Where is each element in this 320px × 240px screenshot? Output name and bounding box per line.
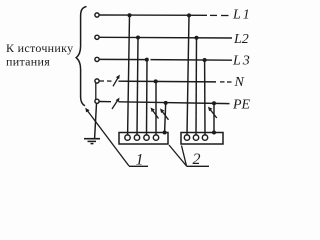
svg-text:L1: L1	[232, 8, 252, 23]
panel 2 box	[181, 133, 223, 145]
terminal circle L3	[95, 57, 99, 61]
terminal circle N	[95, 79, 99, 83]
junction dot feeder2 PE at panel 2	[212, 131, 216, 135]
svg-text:К источнику: К источнику	[6, 41, 73, 55]
panel 1 terminal L2	[134, 135, 139, 140]
feeder 2 wire from L2	[195, 38, 198, 135]
svg-text:1: 1	[136, 152, 144, 169]
junction dot feeder1 PE at panel 1	[163, 131, 167, 135]
bus L2 wire	[99, 36, 232, 39]
panel 2 terminal L1	[184, 135, 189, 140]
bus L1 wire	[99, 14, 207, 16]
junction dot L3/feeder2	[203, 58, 207, 62]
bus L1 dashed end	[210, 14, 217, 16]
svg-text:2: 2	[193, 151, 201, 168]
junction dot PE/feeder2	[212, 101, 216, 105]
junction dot N/feeder1	[154, 79, 158, 83]
feeder 2 wire from L3	[204, 60, 206, 135]
terminal circle L1	[95, 13, 99, 17]
bus L3 wire right part	[151, 59, 233, 62]
ground symbol	[84, 139, 100, 144]
disconnect arrow on feeder 2 PE drop	[208, 107, 217, 118]
junction dot L3/feeder1	[145, 58, 149, 62]
disconnect arrow on feeder 1 PE drop	[160, 108, 169, 119]
junction dot L2/feeder2	[195, 36, 199, 40]
disconnect arrow on bus PE	[112, 98, 120, 110]
feeder 1 wire from L3	[146, 60, 149, 135]
svg-text:L2: L2	[233, 32, 249, 47]
feeder 2 wire from L1	[187, 15, 189, 134]
junction dot L1/feeder1	[128, 13, 132, 17]
feeder 2 wire from PE	[213, 103, 215, 132]
brace (source group)	[76, 7, 86, 106]
leader line for label 1 (points to grounding conductor)	[85, 108, 148, 167]
panel 2 terminal L2	[193, 135, 198, 140]
terminal circle PE	[95, 99, 99, 103]
svg-text:L3: L3	[232, 54, 252, 69]
bus L3 wire	[99, 58, 146, 60]
junction dot PE/feeder1	[164, 101, 168, 105]
junction dot L2/feeder1	[136, 36, 140, 40]
leader line for label 2 from panel 2	[182, 146, 187, 167]
grounding conductor wire	[95, 103, 97, 138]
wire: N-PE link	[95, 83, 97, 99]
bus N dashed end	[220, 81, 225, 83]
bus N dashed left	[100, 80, 105, 82]
disconnect arrow on feeder 1 N drop	[151, 107, 159, 118]
junction dot L1/feeder2	[187, 13, 191, 17]
panel 1 terminal N	[153, 135, 158, 140]
panel 1 box	[119, 133, 168, 145]
panel 2 terminal L3	[202, 135, 207, 140]
feeder 1 wire from PE	[165, 103, 166, 132]
disconnect arrow on bus N	[113, 75, 120, 87]
svg-text:N: N	[234, 75, 245, 90]
feeder 1 wire from L1	[128, 15, 130, 134]
panel 1 terminal L3	[144, 135, 149, 140]
svg-text:питания: питания	[6, 55, 50, 69]
leader line for label 2 from panel 1	[169, 145, 187, 166]
panel 1 terminal L1	[125, 135, 130, 140]
terminal circle L2	[95, 35, 99, 39]
bus PE wire	[99, 101, 111, 103]
feeder 1 wire from L2	[137, 38, 138, 135]
underline of label 2	[187, 165, 210, 167]
svg-text:PE: PE	[232, 98, 251, 113]
bus N wire	[119, 80, 217, 83]
feeder 1 wire from N	[155, 81, 157, 134]
